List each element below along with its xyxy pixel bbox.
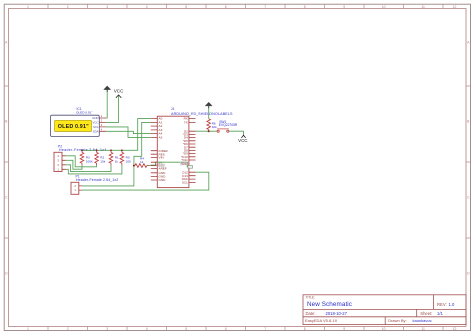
svg-text:1: 1 <box>27 5 29 9</box>
svg-text:EVQ22705R: EVQ22705R <box>219 123 238 127</box>
wire P2 pin3 to R3 bottom <box>66 160 83 169</box>
wire switch to VCC flag <box>229 131 244 135</box>
svg-text:1k: 1k <box>115 159 119 163</box>
svg-text:8: 8 <box>304 327 306 331</box>
svg-text:1/1: 1/1 <box>437 311 443 316</box>
svg-text:GND: GND <box>159 178 167 182</box>
svg-text:10k: 10k <box>212 125 217 129</box>
P1 pin stubs <box>79 186 82 190</box>
svg-text:4: 4 <box>146 5 148 9</box>
svg-text:4: 4 <box>146 327 148 331</box>
svg-text:1: 1 <box>27 327 29 331</box>
svg-text:Sheet:: Sheet: <box>420 311 432 316</box>
junction at R6 bottom <box>208 130 210 132</box>
R4 label <box>140 157 144 165</box>
svg-text:VCC: VCC <box>114 88 124 93</box>
svg-text:9: 9 <box>343 327 345 331</box>
resistor R1 <box>109 150 113 165</box>
svg-text:A5: A5 <box>159 136 163 140</box>
svg-text:OLED 0.91": OLED 0.91" <box>58 124 89 130</box>
svg-text:11: 11 <box>421 5 425 9</box>
svg-text:kaoshavoc: kaoshavoc <box>413 318 432 323</box>
svg-text:J1: J1 <box>171 107 175 111</box>
node junction at R4 left <box>133 165 135 167</box>
header P2 <box>54 152 62 171</box>
J1 left pin names <box>159 117 169 182</box>
wire resistor top rail to A0 <box>82 119 151 151</box>
svg-text:1.0: 1.0 <box>449 302 455 307</box>
svg-text:*D13: *D13 <box>181 162 188 166</box>
IC1 pin numbers <box>101 114 103 131</box>
svg-text:ARDUINO_R3_SHIELDNOLABELS: ARDUINO_R3_SHIELDNOLABELS <box>171 112 233 116</box>
svg-text:100: 100 <box>126 159 131 163</box>
resistor R3 <box>80 150 84 165</box>
R0 label <box>126 155 131 163</box>
J1 right pin names <box>181 117 188 185</box>
resistor R0 <box>120 150 124 165</box>
wire P1 pin1 to J1 D12 <box>82 172 209 190</box>
svg-text:REV:: REV: <box>437 302 447 307</box>
IC1 pin stubs <box>99 118 106 131</box>
svg-text:New Schematic: New Schematic <box>307 301 352 308</box>
svg-text:8: 8 <box>304 5 306 9</box>
svg-text:SDA: SDA <box>93 129 99 133</box>
svg-text:2: 2 <box>67 5 69 9</box>
supply flag (black arrow) above R6 <box>205 102 212 106</box>
title block <box>303 295 466 325</box>
svg-text:10: 10 <box>382 327 386 331</box>
svg-text:1k: 1k <box>140 160 144 164</box>
svg-text:5: 5 <box>185 5 187 9</box>
svg-text:12: 12 <box>453 327 457 331</box>
svg-text:Header-Female 2.54_1x2: Header-Female 2.54_1x2 <box>76 178 118 182</box>
wire P2 pin2 to R1 bottom <box>66 165 112 172</box>
VCC flag (left) <box>116 95 121 98</box>
OLED module IC1 <box>51 115 100 136</box>
wire OLED VCC to VCC flag <box>106 95 119 122</box>
switch SW1 <box>217 129 229 132</box>
svg-text:3: 3 <box>106 5 108 9</box>
wire OLED SDA to J1 A4 <box>106 131 151 133</box>
wire J1 D2 to switch <box>196 130 218 132</box>
J1 label <box>171 107 233 116</box>
svg-text:7: 7 <box>264 5 266 9</box>
svg-text:VCC: VCC <box>238 138 247 143</box>
P1 pin numbers <box>74 184 76 192</box>
svg-text:6: 6 <box>225 327 227 331</box>
svg-text:10: 10 <box>382 5 386 9</box>
svg-text:5: 5 <box>185 327 187 331</box>
R2 label <box>100 155 105 163</box>
svg-text:SCL: SCL <box>182 181 188 185</box>
wire R4 to J1 5V <box>149 162 157 165</box>
R6 label <box>212 122 217 130</box>
svg-text:2018-10-27: 2018-10-27 <box>326 311 348 316</box>
resistor R2 <box>95 150 99 165</box>
R3 label <box>86 155 93 163</box>
svg-text:EasyEDA V5.8.19: EasyEDA V5.8.19 <box>305 318 338 323</box>
wire R6 top to supply arrow <box>208 107 210 119</box>
wire P2 pin4 to R2 bottom <box>66 156 97 167</box>
svg-text:GND: GND <box>92 116 98 120</box>
wire OLED GND to supply arrow <box>106 90 107 119</box>
wire across J1 at 5V row <box>157 162 188 167</box>
R1 label <box>115 155 119 163</box>
svg-text:11: 11 <box>421 327 425 331</box>
node rail junction dots <box>81 149 123 151</box>
wire node to P1 pin2 <box>82 166 134 186</box>
svg-text:Drawn By:: Drawn By: <box>388 318 406 323</box>
svg-text:TX: TX <box>184 121 188 125</box>
resistor R4 <box>135 164 149 168</box>
svg-text:100k: 100k <box>86 159 93 163</box>
wire J1 A1 to node R4 (divider tap) <box>134 122 151 165</box>
supply flag (black arrow) above OLED <box>104 86 111 92</box>
SW1 label <box>219 120 238 127</box>
header P1 <box>71 182 79 194</box>
svg-text:SCL: SCL <box>93 125 99 129</box>
svg-text:VIN: VIN <box>159 156 164 160</box>
resistor R6 <box>207 119 211 132</box>
P2 pin stubs <box>62 156 66 170</box>
net port box right of J1 <box>188 166 193 169</box>
svg-text:TITLE:: TITLE: <box>306 295 316 299</box>
svg-text:7: 7 <box>264 327 266 331</box>
svg-text:6: 6 <box>225 5 227 9</box>
svg-text:Date:: Date: <box>306 311 316 316</box>
svg-text:OLED 0.91": OLED 0.91" <box>76 111 92 115</box>
J1 3.3V highlight <box>158 164 165 167</box>
IC1 label <box>76 107 92 114</box>
svg-text:9: 9 <box>343 5 345 9</box>
IC1 pin names <box>92 116 99 133</box>
VCC flag (right) <box>241 135 245 138</box>
P1 label <box>76 174 119 182</box>
J1 D13 highlight <box>180 162 189 165</box>
svg-text:12: 12 <box>453 5 457 9</box>
P2 label <box>58 145 107 153</box>
J1 left pin stubs <box>151 119 158 180</box>
wire OLED SCL to J1 A5 <box>106 127 151 137</box>
svg-text:3: 3 <box>106 327 108 331</box>
arduino shield J1 <box>157 116 189 187</box>
svg-text:10k: 10k <box>100 159 105 163</box>
P2 pin numbers <box>57 154 59 172</box>
svg-text:VCC: VCC <box>92 120 98 124</box>
svg-text:2: 2 <box>67 327 69 331</box>
wire P2 pin1 to R0 bottom <box>66 165 122 174</box>
J1 right pin stubs <box>189 119 196 183</box>
